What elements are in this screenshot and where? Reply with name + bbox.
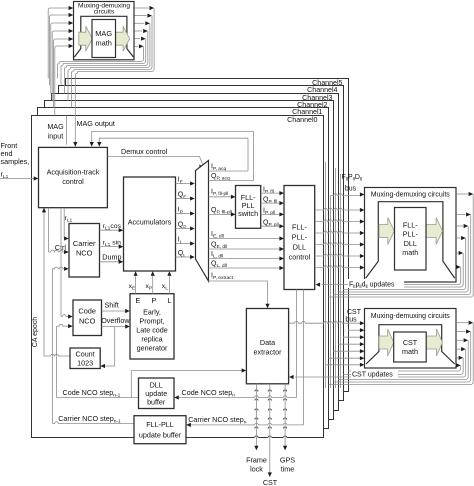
channel bus vertical wires: [325, 162, 327, 388]
fll mux outputs to right verticals: [456, 193, 468, 195]
svg-text:E: E: [135, 296, 140, 305]
hop marks on frame bottom edges: [254, 391, 258, 393]
DLL update buffer box: [139, 378, 175, 409]
svg-text:Channel1: Channel1: [292, 108, 322, 116]
CA epoch wire: [44, 210, 50, 356]
svg-text:control: control: [62, 177, 84, 186]
svg-text:bus: bus: [345, 317, 357, 324]
svg-text:Acquisition-track: Acquisition-track: [47, 168, 100, 177]
GPS time wire: [284, 384, 286, 447]
arrow onto bus wire: [147, 14, 152, 18]
code NCO box: [73, 300, 102, 336]
CST mux outputs to right verticals: [456, 322, 468, 324]
channel frame Channel4: [59, 86, 344, 401]
svg-text:CST: CST: [347, 309, 362, 316]
svg-text:Accumulators: Accumulators: [128, 218, 172, 227]
ctrl wire from acquisition to carrier NCO: [48, 208, 50, 252]
svg-text:DLL: DLL: [404, 239, 417, 248]
acquisition control wire to code NCO: [60, 208, 62, 317]
svg-text:Muxing-demuxing circuits: Muxing-demuxing circuits: [371, 313, 450, 320]
carrier NCO step n-1 wire from FLL-PLL buffer: [53, 422, 135, 424]
svg-text:Prompt,: Prompt,: [139, 317, 164, 326]
acquisition-track control box: [39, 147, 108, 207]
carrier NCO box: [69, 224, 100, 278]
branch to data extractor: [131, 371, 242, 398]
svg-text:extractor: extractor: [254, 348, 283, 357]
svg-text:CST: CST: [403, 338, 418, 347]
arrow into top mux: [69, 29, 74, 33]
tunnel shape: [366, 202, 455, 278]
MAG math box: [92, 20, 116, 58]
svg-text:math: math: [402, 248, 418, 257]
svg-text:Channel4: Channel4: [307, 86, 337, 94]
svg-text:Channel0: Channel0: [287, 116, 317, 124]
CST updates label: [351, 369, 398, 378]
fllplldll updates label: [348, 279, 404, 288]
early prompt late code replica generator box: [130, 294, 174, 359]
wire bundle: top demux outputs descending to channels: [134, 7, 148, 9]
svg-text:Ctrl: Ctrl: [55, 243, 67, 252]
svg-text:update buffer: update buffer: [139, 431, 182, 440]
svg-text:CA epoch: CA epoch: [32, 317, 39, 347]
carrier NCO step riser: [52, 269, 54, 424]
fll pll dll bus wire: [331, 194, 361, 196]
carrier NCO step n wire from control to FLL-PLL update buffer: [303, 290, 305, 425]
mux-demux tunnel shape: [74, 16, 133, 57]
CST bus wire from data extractor: [289, 321, 361, 323]
MAG input wire into acquisition block: [66, 116, 68, 145]
arrow onto bus wire: [150, 6, 155, 10]
svg-text:DLL: DLL: [293, 243, 306, 252]
svg-text:bus: bus: [345, 186, 357, 193]
CST math box: [394, 332, 427, 362]
svg-text:lock: lock: [250, 465, 263, 474]
channel frame Channel0: [32, 116, 324, 438]
svg-text:Count: Count: [76, 350, 95, 359]
svg-text:math: math: [402, 347, 418, 356]
control outputs to right mux circuits: [315, 208, 361, 210]
CST wire: [269, 384, 271, 473]
FLL-PLL update buffer box: [134, 416, 186, 444]
code NCO step riser: [56, 326, 58, 397]
channel output demux trapezoid: [196, 161, 209, 282]
svg-text:CST updates: CST updates: [352, 372, 393, 379]
right muxing-demuxing circuits box (CST): [365, 309, 457, 369]
svg-text:CST: CST: [263, 478, 278, 486]
channel frame Channel3: [52, 94, 339, 411]
svg-text:generator: generator: [137, 344, 168, 353]
right muxing-demuxing circuits box (FLL-PLL-DLL): [365, 188, 457, 283]
svg-text:buffer: buffer: [147, 398, 166, 407]
svg-text:FLL-PLL: FLL-PLL: [146, 420, 174, 429]
svg-text:FLL-: FLL-: [292, 223, 307, 232]
svg-text:Muxing-demuxing circuits: Muxing-demuxing circuits: [371, 192, 450, 199]
svg-text:control: control: [289, 253, 311, 262]
svg-text:MAG: MAG: [95, 29, 112, 38]
svg-text:input: input: [48, 132, 64, 141]
wire bundle: channel MAG outputs rising to top mux: [47, 10, 49, 79]
MAG output / QP acq return wire: [92, 132, 254, 145]
svg-text:time: time: [281, 465, 295, 474]
xE xP xL wires EPL to accumulators: [135, 275, 137, 294]
svg-text:P: P: [151, 296, 156, 305]
svg-text:L: L: [167, 296, 171, 305]
svg-text:Early,: Early,: [143, 308, 161, 317]
svg-text:Code: Code: [78, 307, 96, 316]
accumulators box: [124, 177, 176, 271]
count 1023 box: [70, 348, 100, 369]
svg-text:replica: replica: [141, 335, 162, 344]
svg-text:1023: 1023: [77, 359, 93, 368]
wire front end samples into acquisition: [0, 178, 34, 180]
arrow into top mux: [69, 44, 74, 48]
updates return into control box: [316, 283, 321, 287]
CST updates return into data extractor: [289, 375, 294, 379]
channel frame Channel1: [38, 108, 329, 429]
olive arrow right: [426, 218, 442, 245]
channel frame Channel5: [66, 79, 349, 392]
olive arrow left: [379, 218, 394, 245]
data extractor box: [246, 309, 288, 384]
svg-text:PLL-: PLL-: [403, 230, 419, 239]
svg-text:MAG output: MAG output: [77, 119, 115, 128]
svg-text:GPS: GPS: [280, 456, 295, 465]
svg-text:FLL-: FLL-: [403, 221, 418, 230]
svg-text:MAG: MAG: [47, 122, 64, 131]
svg-text:circuits: circuits: [94, 9, 115, 16]
svg-text:Demux control: Demux control: [121, 147, 168, 156]
svg-text:Carrier: Carrier: [73, 239, 96, 248]
FLL-PLL switch box: [236, 186, 261, 229]
tunnel shape: [366, 325, 455, 364]
arrow onto bus wire: [141, 37, 146, 41]
code NCO step n-1 wire from DLL buffer: [57, 397, 139, 399]
svg-text:Dump: Dump: [102, 253, 121, 262]
arrow into top mux: [69, 13, 74, 17]
svg-text:PLL-: PLL-: [292, 233, 308, 242]
olive arrow right: [426, 329, 442, 356]
arrow onto bus wire: [145, 21, 150, 25]
arrow into top mux: [69, 37, 74, 41]
FLL-PLL-DLL math box: [395, 208, 427, 271]
svg-text:Frame: Frame: [246, 456, 267, 465]
arrow onto bus wire: [139, 44, 144, 48]
IP acq return wire: [99, 138, 248, 144]
arrow onto bus wire: [143, 29, 148, 33]
code NCO step n wire from control to DLL update buffer: [296, 290, 298, 398]
svg-text:Shift: Shift: [105, 301, 119, 310]
CST bus stubs from channel bus: [348, 329, 361, 331]
svg-text:Data: Data: [260, 338, 275, 347]
frame lock wire: [255, 384, 257, 447]
olive data-flow arrow right: [116, 26, 130, 51]
svg-text:Overflow: Overflow: [101, 316, 130, 325]
svg-text:Late code: Late code: [136, 326, 168, 335]
svg-text:NCO: NCO: [79, 317, 96, 326]
FLL-PLL-DLL control box: [284, 186, 315, 290]
svg-text:math: math: [95, 39, 111, 48]
svg-text:switch: switch: [238, 209, 258, 218]
arrow into top mux: [69, 6, 74, 10]
channel frame Channel2: [45, 101, 334, 420]
svg-text:samples,: samples,: [1, 157, 30, 166]
olive arrow left: [379, 329, 394, 356]
top muxing-demuxing circuits box: [74, 2, 135, 60]
svg-text:NCO: NCO: [76, 249, 93, 258]
arrow into top mux: [69, 21, 74, 25]
olive data-flow arrow left: [79, 26, 93, 51]
